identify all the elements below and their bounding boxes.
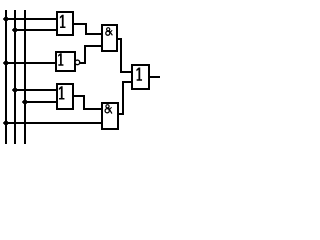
wire D-out to F-in1 bbox=[117, 39, 133, 72]
gate U5 box bbox=[102, 103, 118, 129]
wire A-in1 bbox=[6, 18, 58, 20]
bus line V1 bbox=[5, 10, 7, 144]
label U6 "1" bbox=[136, 68, 142, 81]
label U1 "1" bbox=[60, 15, 66, 28]
node J2 bbox=[12, 27, 18, 33]
label U3 "1" bbox=[59, 86, 65, 99]
node J5 bbox=[22, 99, 28, 105]
wire F-out bbox=[148, 76, 160, 78]
label U4 "&" bbox=[106, 28, 113, 36]
gate U4 box bbox=[102, 25, 117, 51]
bus line V2 bbox=[14, 10, 16, 144]
wire B-out to D-in2 bbox=[80, 46, 102, 63]
wire B-in bbox=[6, 62, 57, 64]
node J4 bbox=[12, 87, 18, 93]
wire C-in1 bbox=[15, 89, 58, 91]
node J6 bbox=[3, 120, 9, 126]
wire E-in2 bbox=[6, 122, 103, 124]
gate U6 box bbox=[132, 65, 149, 89]
gate U3 box bbox=[57, 84, 73, 109]
node J3 bbox=[3, 60, 9, 66]
node J1 bbox=[3, 16, 9, 22]
label U5 "&" bbox=[105, 105, 112, 114]
bus line V3 bbox=[24, 10, 26, 144]
gate U1 box bbox=[57, 12, 73, 35]
wire C-in2 bbox=[25, 101, 58, 103]
gate U2 box bbox=[56, 52, 75, 71]
wire A-in2 bbox=[15, 29, 58, 31]
wire C-out to E-in1 bbox=[73, 96, 102, 109]
wire E-out to F-in2 bbox=[118, 82, 133, 114]
label U2 "1" bbox=[58, 53, 63, 65]
bubble U2 bbox=[75, 60, 80, 65]
wire A-out to D-in1 bbox=[73, 24, 102, 34]
